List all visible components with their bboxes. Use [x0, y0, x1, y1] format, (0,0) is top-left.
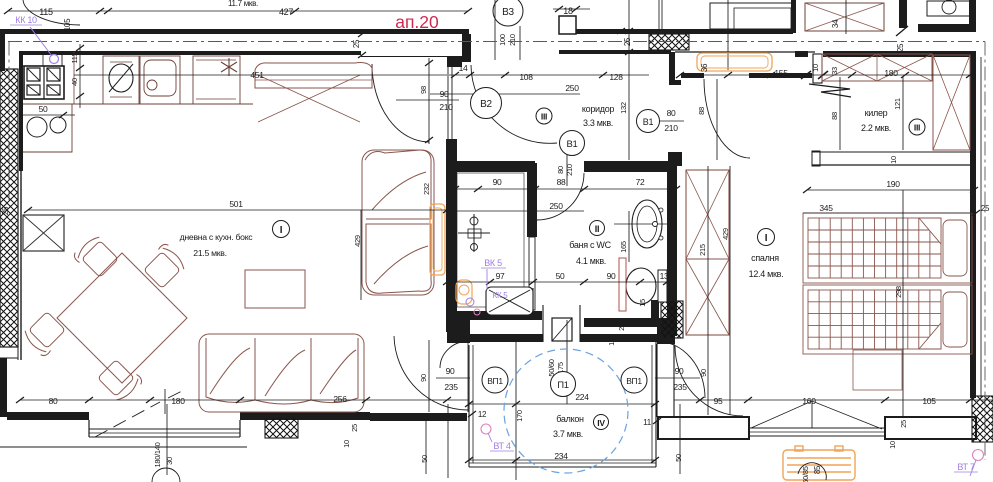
wall outer top-left corner vertical: [0, 29, 5, 71]
shower mixer: [473, 214, 475, 252]
svg-text:170: 170: [515, 410, 524, 422]
wall left hatched band: [0, 69, 18, 347]
bench along top wall: [255, 63, 372, 88]
dimension 50 rotated right: [679, 404, 681, 474]
storage bottom shelf partition: [812, 151, 970, 153]
wall shower top: [446, 161, 535, 172]
svg-text:П1: П1: [557, 380, 569, 391]
svg-text:90: 90: [493, 177, 502, 187]
svg-text:115: 115: [39, 7, 53, 17]
svg-text:III: III: [914, 123, 920, 133]
svg-text:коридор: коридор: [582, 104, 615, 114]
svg-text:90: 90: [446, 366, 455, 376]
svg-text:50: 50: [39, 104, 48, 114]
svg-text:15: 15: [638, 299, 647, 307]
wall bedroom-balcony lower left: [651, 300, 659, 323]
dimension 80 210 corridor right: [657, 120, 684, 122]
svg-text:50: 50: [674, 454, 683, 462]
door arc bathroom: [537, 173, 584, 220]
wall bedroom top right of door: [749, 73, 812, 78]
dimension 250 bathroom: [447, 210, 584, 212]
svg-text:345: 345: [819, 203, 833, 213]
svg-text:B3: B3: [502, 7, 514, 18]
dimension 170 rotated balcony: [515, 342, 517, 480]
svg-text:160: 160: [802, 396, 816, 406]
svg-text:10: 10: [607, 338, 616, 346]
right edge neighbour line: [980, 57, 982, 398]
svg-text:B1: B1: [643, 117, 654, 127]
svg-text:72: 72: [636, 177, 645, 187]
door B1 circle corridor: [560, 131, 585, 156]
coffee table: [245, 270, 305, 308]
dimension extension below balcony left: [447, 404, 449, 478]
wall pillar bathroom bottom-left: [447, 311, 470, 343]
dimension line 451 y75: [74, 74, 447, 76]
svg-text:232: 232: [422, 183, 431, 195]
svg-text:160/85: 160/85: [801, 466, 810, 482]
kitchen sink unit: [140, 56, 180, 104]
svg-text:спалня: спалня: [751, 253, 779, 263]
svg-text:34: 34: [831, 19, 840, 28]
svg-text:100: 100: [498, 34, 507, 46]
washing machine bathroom: [486, 287, 533, 315]
svg-text:250: 250: [549, 201, 563, 211]
svg-text:50/60: 50/60: [547, 359, 556, 376]
svg-text:18: 18: [563, 6, 573, 16]
svg-text:12: 12: [478, 410, 487, 419]
sofa three-seat: [199, 334, 364, 412]
svg-text:36: 36: [700, 63, 709, 72]
wall outer top-left: [0, 29, 469, 34]
svg-text:10: 10: [888, 441, 897, 449]
room II bathroom circle: [590, 221, 605, 236]
wardrobe bedroom: [686, 170, 729, 335]
svg-text:21.5 мкв.: 21.5 мкв.: [193, 248, 226, 258]
svg-text:429: 429: [353, 235, 362, 247]
wall jamb corridor-bedroom: [669, 52, 675, 85]
window living room bottom: [89, 428, 240, 430]
svg-text:33: 33: [830, 67, 839, 75]
boiler below bedroom: [783, 446, 855, 480]
centerline right edge: [984, 42, 986, 461]
room I living circle: [273, 221, 290, 238]
shower room inner outline: [457, 173, 524, 307]
svg-text:180/140: 180/140: [153, 442, 162, 467]
bench X legs: [258, 75, 360, 122]
dimension 429 rotated bedroom: [729, 166, 731, 415]
centerline top wall: [8, 41, 985, 43]
dimension 50 rotated left: [425, 421, 427, 474]
wall inner left face: [19, 51, 23, 171]
svg-text:451: 451: [250, 70, 264, 80]
shower screen red strip: [619, 258, 626, 311]
wall bathroom right: [667, 164, 677, 336]
window ref circle bottom-left: [152, 468, 180, 482]
svg-text:250: 250: [565, 83, 579, 93]
balcony slab arc left: [440, 341, 469, 368]
wall bottom-left segment: [7, 412, 89, 420]
wall inner top face: [20, 51, 361, 55]
svg-text:11: 11: [643, 418, 652, 427]
svg-text:115: 115: [70, 52, 79, 63]
storage wardrobe top row: [822, 54, 932, 81]
dimension 298 rotated: [902, 190, 904, 417]
centerline left wall: [8, 42, 10, 201]
dimension 250 corridor: [430, 93, 580, 95]
svg-text:224: 224: [575, 392, 589, 402]
wall between shower and bath: [527, 163, 537, 237]
wall corridor outer top: [559, 29, 793, 34]
room III storage circle: [909, 119, 925, 135]
wall stub corridor-bedroom at shelf level: [668, 152, 682, 166]
svg-text:КК 10: КК 10: [15, 15, 37, 25]
dimension 224 balcony: [469, 403, 655, 405]
svg-text:132: 132: [619, 102, 628, 114]
svg-text:80: 80: [49, 396, 58, 406]
wall hatched band corridor top: [649, 34, 689, 50]
dimension 98 rotated: [428, 58, 430, 144]
balcony opening edge living side: [467, 341, 469, 412]
svg-text:III: III: [541, 112, 547, 122]
svg-text:95: 95: [714, 396, 723, 406]
svg-text:ВК 5: ВК 5: [484, 258, 502, 268]
svg-text:II: II: [595, 224, 599, 234]
svg-text:балкон: балкон: [556, 414, 584, 424]
svg-text:50: 50: [556, 271, 565, 281]
window bedroom bottom: [749, 427, 885, 429]
bed 1: [803, 213, 972, 283]
wall bath bottom section right: [584, 318, 667, 327]
radiator corridor horizontal: [697, 53, 772, 71]
svg-text:210: 210: [565, 164, 574, 176]
door arc bedroom: [704, 79, 750, 158]
bathroom sink: [632, 200, 662, 248]
water heater bathroom corner: [456, 280, 472, 304]
dimension 90 235 balcony left door: [436, 377, 470, 379]
svg-text:234: 234: [554, 451, 568, 461]
dimension 345 bedroom: [803, 212, 976, 214]
svg-text:3.3 мкв.: 3.3 мкв.: [583, 118, 613, 128]
wall jamb right of living door: [462, 34, 471, 62]
wall hatched corner bottom-right: [972, 396, 993, 442]
window opening dashes bedroom: [751, 401, 882, 429]
window VP1 circle left: [482, 367, 508, 393]
room I bedroom circle: [758, 229, 775, 246]
svg-text:88: 88: [697, 107, 706, 115]
svg-text:10: 10: [811, 64, 820, 72]
svg-text:13: 13: [660, 271, 669, 281]
kitchen unit with asterisk: [193, 56, 240, 104]
wall bedroom right: [970, 55, 976, 398]
svg-text:25: 25: [623, 37, 632, 46]
svg-text:210: 210: [508, 34, 517, 46]
balcony heating zone blue circle: [504, 349, 628, 473]
window VP1 circle right: [621, 367, 647, 393]
dimension 501 line: [28, 209, 447, 211]
dimension 215 rotated: [707, 166, 709, 415]
dimension 90 235 bedroom balcony door: [655, 377, 700, 379]
dimension 234 balcony: [469, 459, 655, 461]
svg-text:128: 128: [609, 72, 623, 82]
wall balcony face left segment: [468, 334, 543, 342]
svg-text:90: 90: [607, 271, 616, 281]
svg-text:427: 427: [279, 7, 293, 17]
room III corridor circle: [536, 108, 552, 124]
svg-text:11.7 мкв.: 11.7 мкв.: [228, 0, 258, 8]
wall bath top right of door: [584, 161, 676, 172]
svg-text:210: 210: [664, 123, 678, 133]
svg-text:дневна с кухн. бокс: дневна с кухн. бокс: [180, 232, 254, 242]
dimension line top: [8, 10, 468, 12]
svg-text:85: 85: [813, 465, 822, 474]
svg-text:B2: B2: [480, 99, 492, 110]
svg-text:165: 165: [619, 241, 628, 253]
door B1 circle right: [637, 110, 660, 133]
svg-text:501: 501: [229, 199, 243, 209]
dimension 90 rotated balcony door height: [428, 340, 430, 412]
svg-text:25: 25: [981, 204, 990, 213]
sofa two-seat: [362, 150, 434, 295]
svg-text:ВП1: ВП1: [487, 376, 503, 386]
svg-text:килер: килер: [865, 108, 888, 118]
wall storage left partition: [813, 54, 822, 83]
svg-text:180: 180: [171, 396, 185, 406]
neighbour lobby rectangle top: [710, 3, 792, 29]
balcony railing right: [651, 345, 653, 463]
svg-text:215: 215: [698, 244, 707, 256]
window P1 circle: [551, 372, 576, 397]
svg-text:429: 429: [721, 228, 730, 240]
kitchen counter edge: [23, 103, 253, 105]
wall bathroom bottom shower section: [447, 311, 542, 320]
svg-text:25: 25: [896, 43, 905, 52]
neighbour cabinet with X top-right: [805, 3, 884, 31]
svg-text:155: 155: [774, 68, 788, 78]
svg-text:256: 256: [333, 394, 347, 404]
dimension 165 rotated: [628, 211, 630, 262]
wall bathroom bottom niche edge: [532, 288, 534, 318]
svg-text:90: 90: [675, 366, 684, 376]
svg-text:2.2 мкв.: 2.2 мкв.: [861, 123, 891, 133]
dimension line bathroom y189: [455, 188, 676, 190]
wall bathroom left: [446, 139, 457, 332]
svg-text:80: 80: [556, 166, 565, 174]
svg-text:12.4 мкв.: 12.4 мкв.: [749, 269, 784, 279]
dining chairs: [72, 233, 120, 281]
dimension 90 210 living door: [396, 99, 459, 101]
door arc entrance: [471, 65, 557, 143]
wall bedroom bottom-right block: [885, 417, 976, 439]
svg-text:ВТ 4: ВТ 4: [493, 441, 510, 451]
svg-text:25: 25: [350, 424, 359, 432]
wall line y52 corridor to storage: [675, 51, 815, 53]
dimension 121 rotated: [902, 77, 904, 150]
neighbour wall segment x900: [899, 0, 907, 28]
balcony railing left: [468, 345, 470, 467]
wall hatched pier bathroom bottom-right: [661, 301, 683, 338]
storage folding door zigzag: [809, 84, 851, 97]
svg-text:97: 97: [496, 271, 505, 281]
bedside table: [853, 350, 902, 390]
wall bathroom left thin upper edge: [447, 63, 449, 139]
kitchen appliance with circle: [103, 56, 139, 104]
wall bottom segment x370-467: [370, 413, 467, 421]
svg-text:B1: B1: [566, 139, 577, 150]
svg-text:ВП1: ВП1: [626, 376, 642, 386]
wall neighbour divider x791: [791, 0, 796, 33]
svg-text:190: 190: [886, 179, 900, 189]
svg-text:108: 108: [519, 72, 533, 82]
dimension 180/140 30 rotated: [166, 404, 168, 475]
balcony door threshold: [542, 305, 544, 342]
extension lines entrance: [658, 0, 660, 34]
wall bottom segment x240-370: [240, 412, 370, 420]
dimension 88 rotated storage: [839, 77, 841, 150]
balcony slab arc right: [656, 341, 705, 398]
node B3 circle: [493, 0, 523, 26]
svg-text:25: 25: [1, 206, 10, 215]
svg-text:88: 88: [557, 177, 566, 187]
dining table diamond: [57, 253, 187, 383]
svg-text:3.7 мкв.: 3.7 мкв.: [553, 429, 583, 439]
room IV balcony circle: [594, 415, 609, 430]
svg-text:210: 210: [439, 102, 453, 112]
dimension 190 storage: [807, 189, 974, 191]
svg-text:КК 5: КК 5: [493, 291, 509, 300]
svg-text:30: 30: [165, 457, 174, 465]
svg-text:4.1 мкв.: 4.1 мкв.: [576, 256, 606, 266]
wall left lower notch: [0, 346, 18, 348]
svg-text:баня с WC: баня с WC: [569, 240, 611, 250]
svg-text:50: 50: [420, 455, 429, 463]
door arc balcony from living: [394, 336, 468, 410]
kitchen sink bowls: [27, 117, 47, 137]
svg-text:121: 121: [893, 98, 902, 110]
neighbour washing machine top-right: [927, 1, 971, 16]
kitchen lower cabinet X-box: [23, 215, 64, 251]
svg-text:40: 40: [70, 78, 79, 86]
entrance door notch: [559, 16, 576, 34]
dimension line corridor y75: [449, 74, 649, 76]
bedroom balcony door lines: [656, 344, 658, 417]
storage wardrobe tall right: [933, 55, 970, 150]
svg-text:235: 235: [444, 382, 458, 392]
wall lintel over living door: [361, 56, 447, 58]
kitchen stove 4-plate: [24, 66, 64, 99]
bed 2: [803, 285, 972, 354]
door B2 circle: [471, 88, 502, 119]
svg-text:IV: IV: [597, 418, 605, 428]
dimension 88 rotated bedroom door: [716, 79, 718, 160]
dimension 18 top: [553, 8, 590, 10]
svg-text:88: 88: [830, 112, 839, 120]
dimension 115 40 rotated kitchen: [79, 44, 81, 108]
dimension line bathroom y282: [447, 281, 676, 283]
door arc living room: [372, 64, 429, 142]
svg-text:10: 10: [889, 156, 898, 164]
dimension 132 rotated: [628, 0, 630, 160]
svg-text:235: 235: [673, 382, 687, 392]
dimension line bottom left y400: [20, 399, 468, 401]
neighbour apartment door arc top-left: [23, 0, 80, 25]
wall notch left of living door: [447, 56, 462, 67]
window opening dashes living: [95, 389, 186, 437]
sill line bottom-left: [0, 446, 247, 448]
wall balcony face right segment: [580, 334, 667, 342]
svg-text:14: 14: [459, 63, 468, 73]
wall pier balcony-bedroom: [657, 320, 675, 344]
svg-text:98: 98: [419, 86, 428, 94]
svg-text:10: 10: [342, 440, 351, 448]
dimension line bottom right y400: [674, 399, 993, 401]
radiator living vertical: [430, 204, 445, 275]
svg-text:90: 90: [699, 369, 708, 377]
wall left lower solid: [0, 358, 7, 417]
svg-text:180: 180: [884, 68, 898, 78]
svg-text:80: 80: [667, 108, 676, 118]
kk10 dimension line: [22, 114, 75, 116]
wall corridor inner face: [559, 50, 671, 54]
balcony railing bottom: [469, 462, 656, 464]
wall hatched pier bottom x265: [265, 418, 298, 438]
svg-text:25: 25: [352, 39, 361, 48]
svg-text:25: 25: [617, 323, 626, 331]
wall bedroom top-left segment: [681, 73, 704, 78]
wall storage top: [795, 51, 808, 57]
svg-text:25: 25: [899, 420, 908, 428]
wall bedroom bottom-left block: [658, 417, 749, 439]
svg-text:105: 105: [922, 396, 936, 406]
svg-text:90: 90: [419, 374, 428, 382]
door arc bedroom to balcony: [675, 346, 743, 416]
dimension 429 rotated living: [360, 210, 362, 300]
kitchen upper cabinet: [22, 54, 62, 66]
toilet: [626, 268, 656, 304]
svg-text:298: 298: [894, 286, 903, 298]
dimension 50/60 175 rotated: [566, 320, 568, 404]
